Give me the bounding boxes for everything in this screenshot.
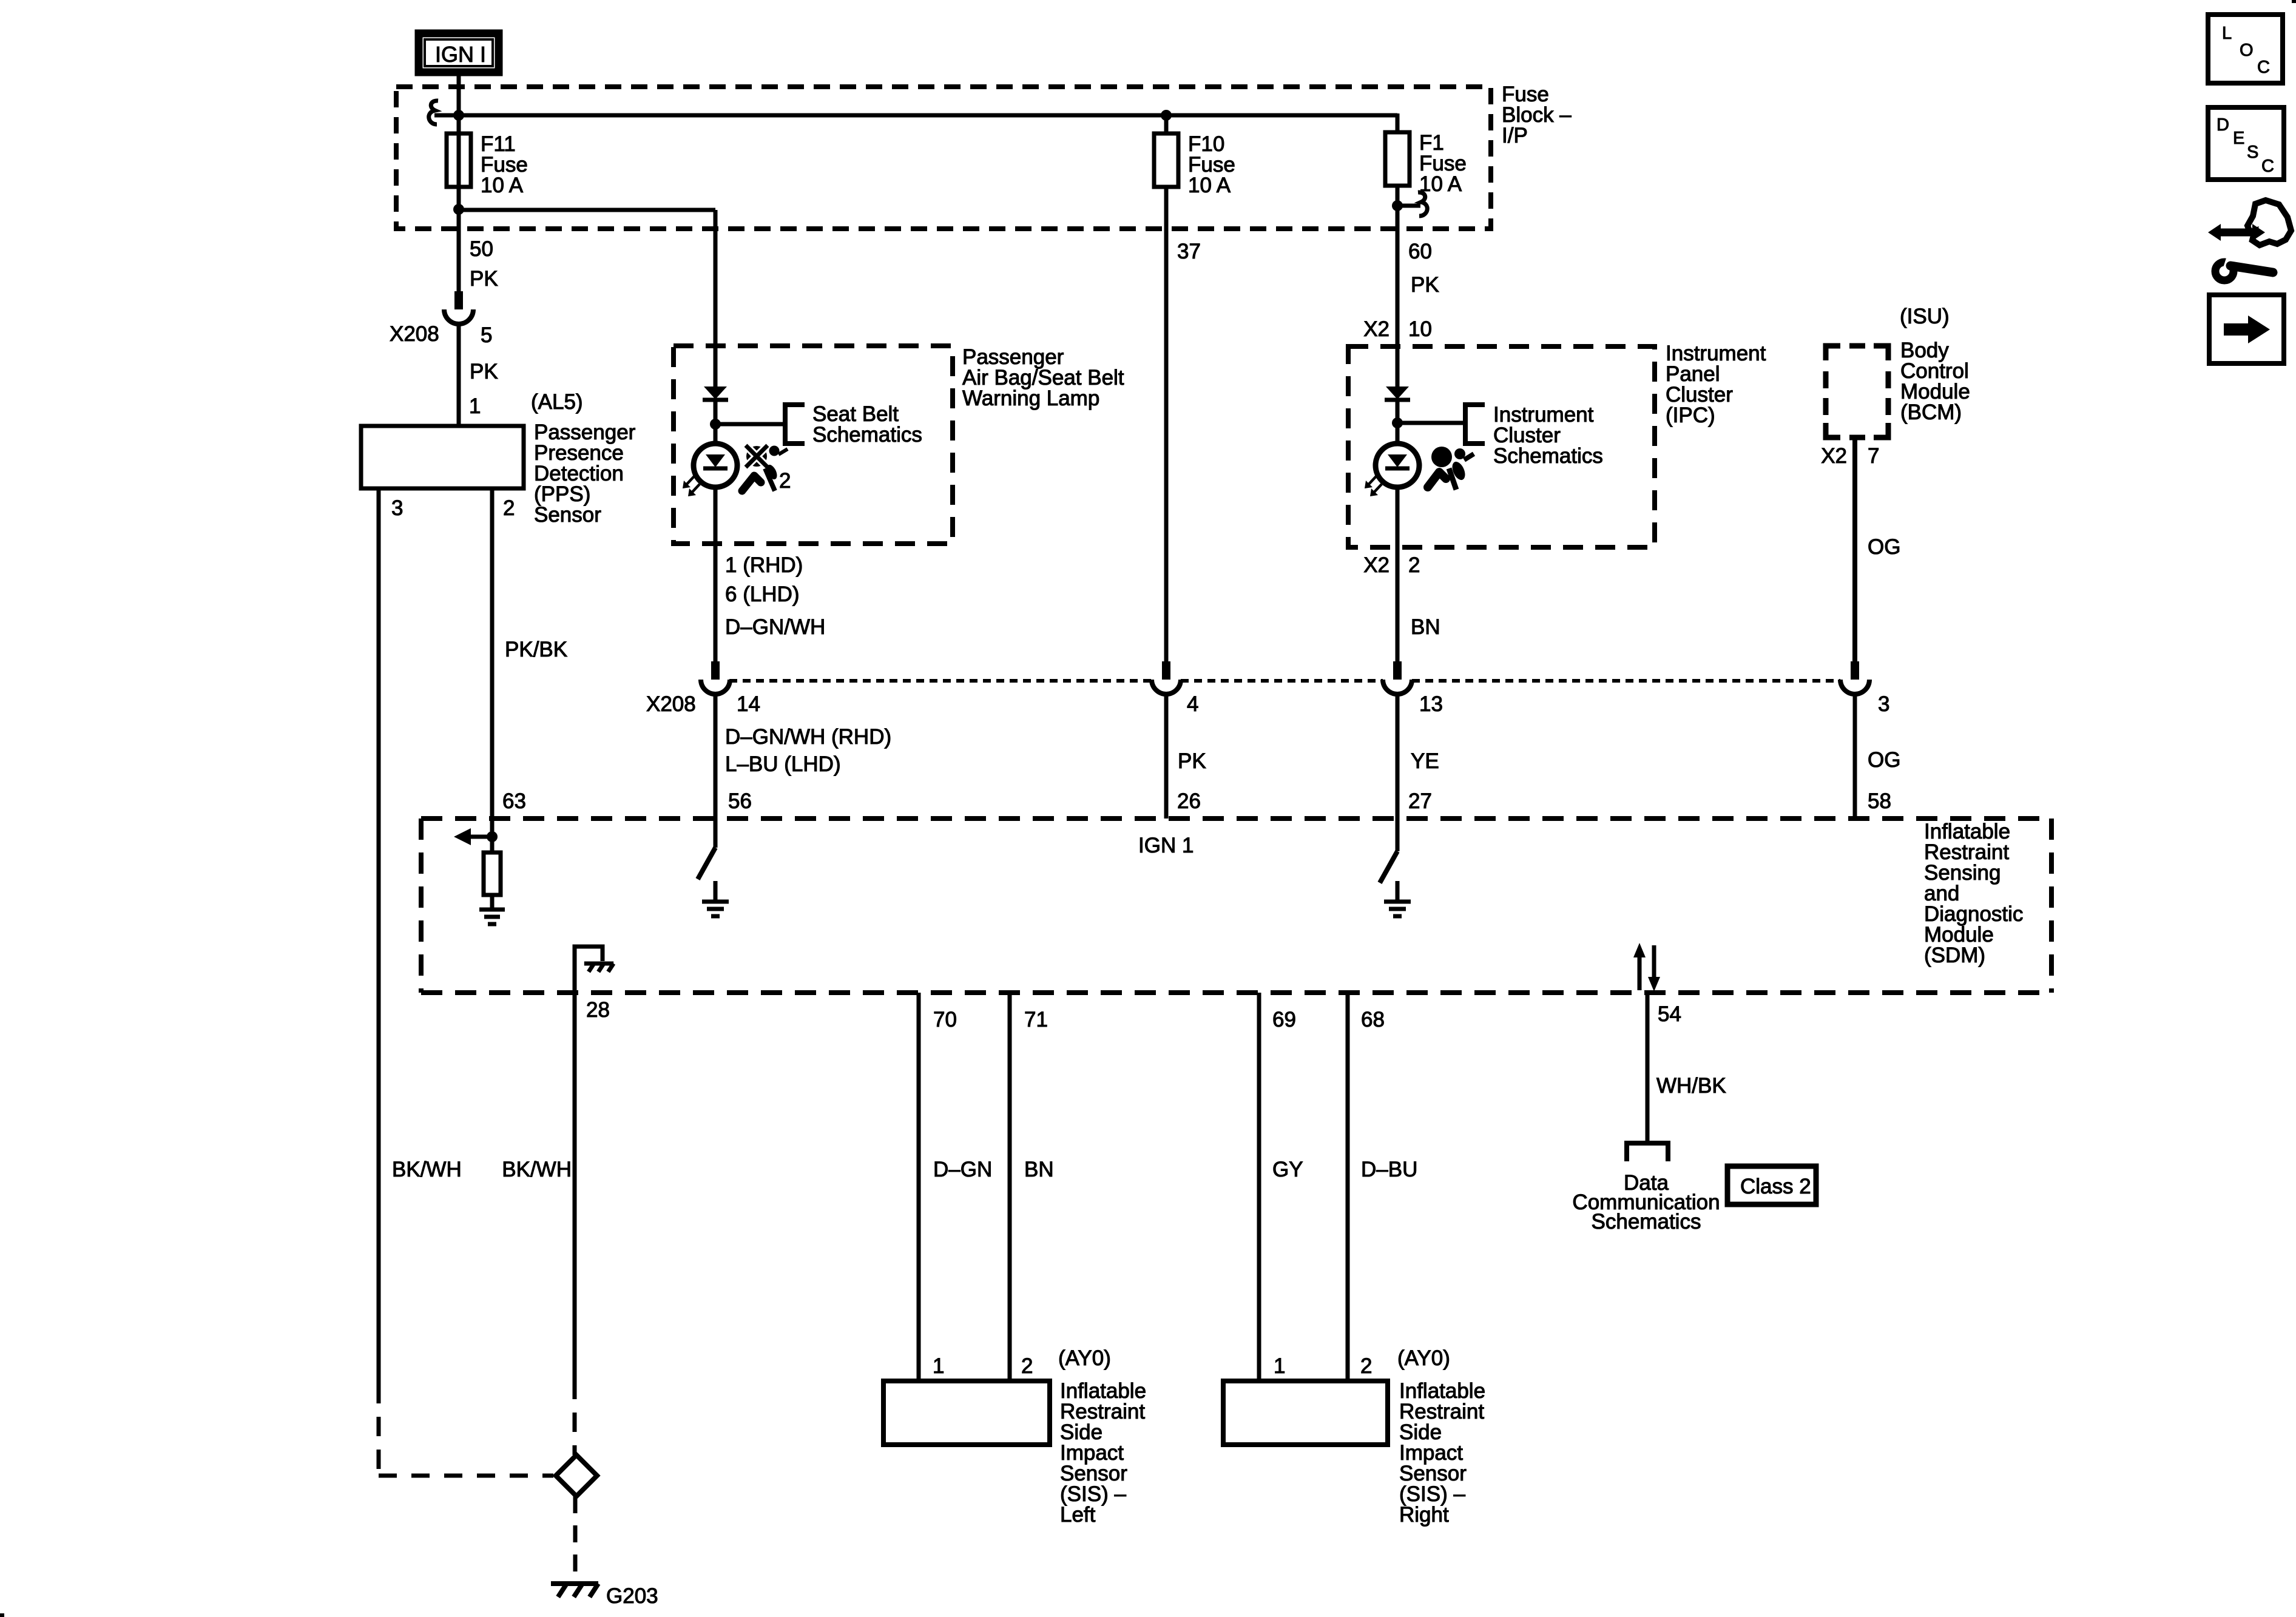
junction node F1 output bbox=[1392, 200, 1403, 211]
connector X208 pin 5 bbox=[454, 291, 463, 309]
dashed tail of pin3 wire bbox=[377, 1384, 381, 1475]
wire YE 27 bbox=[1396, 695, 1400, 819]
svg-text:C: C bbox=[2261, 157, 2274, 176]
fuse F10 bbox=[1154, 133, 1178, 187]
svg-text:WH/BK: WH/BK bbox=[1656, 1074, 1726, 1098]
svg-text:GY: GY bbox=[1272, 1158, 1303, 1181]
wire 70 D-GN bbox=[917, 993, 921, 1381]
svg-text:X2: X2 bbox=[1363, 317, 1389, 341]
splice diamond bbox=[556, 1455, 597, 1496]
dashed wire diamond to G203 bbox=[573, 1496, 578, 1582]
wire 63 into SDM bbox=[490, 819, 495, 852]
svg-text:Class 2: Class 2 bbox=[1740, 1175, 1811, 1198]
SIS right box bbox=[1223, 1381, 1388, 1445]
branch wire to seat belt lamp column bbox=[456, 208, 715, 212]
svg-text:BK/WH: BK/WH bbox=[392, 1158, 462, 1181]
svg-text:50: 50 bbox=[470, 237, 493, 261]
LED IPC bbox=[1376, 444, 1419, 487]
ground pin 27 bbox=[1396, 881, 1400, 900]
svg-text:D–GN/WH (RHD): D–GN/WH (RHD) bbox=[725, 725, 891, 749]
power feed box IGN I bbox=[419, 33, 499, 72]
svg-text:L–BU (LHD): L–BU (LHD) bbox=[725, 752, 841, 776]
wire LED to IPC box bottom bbox=[1396, 487, 1400, 547]
wire diode to junction IPC bbox=[1396, 400, 1400, 444]
svg-text:PassengerPresenceDetection(PPS: PassengerPresenceDetection(PPS)Sensor bbox=[534, 420, 636, 527]
page mark dot top right bbox=[2292, 0, 2296, 3]
svg-text:(AL5): (AL5) bbox=[531, 390, 583, 414]
svg-text:1: 1 bbox=[933, 1354, 944, 1378]
svg-text:FuseBlock –I/P: FuseBlock –I/P bbox=[1502, 83, 1572, 147]
svg-text:S: S bbox=[2247, 143, 2258, 162]
arrow into module pin 63 bbox=[471, 835, 492, 839]
svg-text:1: 1 bbox=[1274, 1354, 1285, 1378]
wire to seat belt bracket bbox=[715, 422, 785, 427]
svg-text:13: 13 bbox=[1419, 692, 1443, 716]
svg-text:D: D bbox=[2217, 115, 2229, 135]
wire BN bbox=[1396, 547, 1400, 661]
wire 69 GY bbox=[1257, 993, 1261, 1381]
svg-text:2: 2 bbox=[1021, 1354, 1033, 1378]
svg-text:PK: PK bbox=[1178, 749, 1206, 773]
svg-text:X2: X2 bbox=[1821, 444, 1847, 468]
svg-text:PK/BK: PK/BK bbox=[505, 638, 567, 661]
wire 50 PK to X208 bbox=[457, 209, 461, 291]
wire PK to PPS pin 1 bbox=[457, 325, 461, 426]
svg-text:C: C bbox=[2257, 58, 2270, 77]
svg-text:D–GN: D–GN bbox=[933, 1158, 992, 1181]
svg-text:68: 68 bbox=[1361, 1008, 1385, 1031]
svg-text:BK/WH: BK/WH bbox=[502, 1158, 572, 1181]
svg-text:69: 69 bbox=[1272, 1008, 1296, 1031]
svg-text:4: 4 bbox=[1187, 692, 1198, 716]
svg-text:(AY0): (AY0) bbox=[1397, 1346, 1450, 1370]
dashed link to splice bbox=[379, 1474, 553, 1478]
fork connector data link bbox=[1627, 1143, 1668, 1161]
class 2 box bbox=[1727, 1166, 1816, 1204]
switch pin 56 bbox=[714, 819, 718, 848]
svg-text:PK: PK bbox=[1411, 273, 1439, 297]
connector X208 pin 4 bbox=[1162, 661, 1170, 680]
svg-text:InflatableRestraintSensingandD: InflatableRestraintSensingandDiagnosticM… bbox=[1924, 820, 2023, 967]
svg-text:D–BU: D–BU bbox=[1361, 1158, 1417, 1181]
wire 54 WH/BK bbox=[1646, 993, 1650, 1143]
svg-text:2: 2 bbox=[503, 496, 515, 520]
junction node IPC bbox=[1392, 417, 1403, 428]
svg-text:E: E bbox=[2233, 129, 2244, 148]
svg-text:6 (LHD): 6 (LHD) bbox=[725, 582, 800, 606]
wire into lamp bbox=[714, 346, 718, 387]
bracket seat belt schematics bbox=[785, 405, 805, 444]
connector X208 pin 3 bbox=[1851, 661, 1859, 680]
airbag icon IPC bbox=[1431, 447, 1452, 467]
bracket instrument cluster schematics bbox=[1465, 405, 1485, 444]
svg-text:X208: X208 bbox=[390, 322, 439, 346]
svg-text:X2: X2 bbox=[1363, 553, 1389, 577]
svg-text:5: 5 bbox=[481, 323, 492, 347]
wire 71 BN bbox=[1008, 993, 1012, 1381]
svg-text:PK: PK bbox=[470, 267, 498, 291]
svg-text:28: 28 bbox=[586, 998, 610, 1022]
dashed tail wire 28 bbox=[573, 1380, 577, 1455]
resistor pin 63 bbox=[484, 852, 501, 895]
svg-text:BN: BN bbox=[1411, 615, 1440, 639]
svg-text:YE: YE bbox=[1411, 749, 1439, 773]
junction node below F11 bbox=[453, 204, 464, 215]
switch pin 27 bbox=[1396, 819, 1400, 851]
svg-text:37: 37 bbox=[1177, 240, 1201, 263]
junction node pin 63 bbox=[487, 831, 498, 842]
svg-text:7: 7 bbox=[1868, 444, 1879, 468]
svg-text:InflatableRestraintSideImpactS: InflatableRestraintSideImpactSensor(SIS)… bbox=[1399, 1379, 1485, 1527]
svg-text:Seat BeltSchematics: Seat BeltSchematics bbox=[812, 402, 922, 447]
wire 28 BK/WH bbox=[573, 993, 577, 1380]
wire corner into F1 bbox=[1396, 113, 1400, 132]
svg-text:2: 2 bbox=[1360, 1354, 1372, 1378]
svg-text:InstrumentClusterSchematics: InstrumentClusterSchematics bbox=[1493, 403, 1603, 468]
svg-text:56: 56 bbox=[728, 789, 752, 813]
ground pin 63 bbox=[479, 908, 505, 912]
svg-text:BodyControlModule(BCM): BodyControlModule(BCM) bbox=[1900, 339, 1970, 424]
wire into IPC bbox=[1396, 346, 1400, 387]
wire lamp to X208 pin 14 bbox=[714, 544, 718, 661]
svg-text:1: 1 bbox=[469, 394, 481, 418]
wire resistor to ground bbox=[490, 895, 495, 908]
svg-text:2: 2 bbox=[779, 469, 791, 493]
svg-text:OG: OG bbox=[1868, 535, 1900, 559]
fuse F11 bbox=[447, 133, 471, 187]
svg-text:L: L bbox=[2222, 24, 2232, 43]
splice hook at F1 output bbox=[1397, 204, 1420, 208]
wire to cluster bracket bbox=[1397, 421, 1465, 425]
diode IPC bbox=[1386, 387, 1409, 399]
svg-text:D–GN/WH: D–GN/WH bbox=[725, 615, 825, 639]
junction node F11 input bbox=[453, 110, 464, 121]
svg-text:PK: PK bbox=[470, 360, 498, 383]
svg-text:70: 70 bbox=[933, 1008, 957, 1031]
svg-text:O: O bbox=[2240, 41, 2254, 60]
svg-text:OG: OG bbox=[1868, 748, 1900, 772]
svg-text:BN: BN bbox=[1024, 1158, 1054, 1181]
splice hook at F11 input bbox=[434, 113, 459, 118]
inline connector row X208 dotted line bbox=[729, 679, 1152, 683]
fuse F1 bbox=[1385, 132, 1410, 186]
page mark dot bottom left bbox=[0, 1613, 4, 1617]
svg-text:3: 3 bbox=[1878, 692, 1889, 716]
chassis ground G203 bbox=[551, 1581, 598, 1586]
data link arrows pin 54 bbox=[1638, 957, 1642, 990]
fuse block I/P dashed box bbox=[396, 87, 1491, 229]
ground pin 56 bbox=[714, 881, 718, 900]
svg-text:(AY0): (AY0) bbox=[1058, 1346, 1111, 1370]
wire 60 PK bbox=[1396, 206, 1400, 346]
svg-text:(ISU): (ISU) bbox=[1900, 305, 1950, 328]
passenger air bag / seat belt warning lamp dashed box bbox=[674, 346, 953, 544]
svg-text:60: 60 bbox=[1408, 240, 1432, 263]
wire BCM X2 7 bbox=[1852, 437, 1857, 661]
svg-text:63: 63 bbox=[502, 789, 526, 813]
svg-text:1 (RHD): 1 (RHD) bbox=[725, 553, 803, 577]
connector X208 pin 14 bbox=[711, 661, 720, 680]
connector X208 pin 13 bbox=[1393, 661, 1402, 680]
svg-text:F10Fuse10 A: F10Fuse10 A bbox=[1188, 132, 1235, 197]
diagnostic hand icon bbox=[2247, 200, 2291, 245]
svg-text:F11Fuse10 A: F11Fuse10 A bbox=[481, 132, 528, 197]
svg-text:54: 54 bbox=[1658, 1002, 1681, 1026]
SIS left box bbox=[883, 1381, 1050, 1445]
svg-text:G203: G203 bbox=[606, 1584, 658, 1608]
svg-text:IGN 1: IGN 1 bbox=[1138, 834, 1194, 857]
body control module dashed box bbox=[1826, 346, 1888, 437]
arrow icon box bbox=[2209, 295, 2284, 363]
PPS sensor box bbox=[361, 426, 524, 488]
junction node lamp bbox=[710, 419, 721, 430]
svg-text:26: 26 bbox=[1177, 789, 1201, 813]
wire 56 D-GN/WH bbox=[714, 695, 718, 819]
svg-text:InstrumentPanelCluster(IPC): InstrumentPanelCluster(IPC) bbox=[1666, 342, 1766, 427]
svg-text:DataCommunicationSchematics: DataCommunicationSchematics bbox=[1572, 1171, 1720, 1234]
svg-text:14: 14 bbox=[737, 692, 760, 716]
airbag icon with crossed disc bbox=[746, 446, 767, 467]
svg-text:2: 2 bbox=[1408, 553, 1420, 577]
svg-text:F1Fuse10 A: F1Fuse10 A bbox=[1419, 131, 1467, 196]
wire PPS pin 2 PK/BK bbox=[490, 488, 495, 819]
svg-text:InflatableRestraintSideImpactS: InflatableRestraintSideImpactSensor(SIS)… bbox=[1060, 1379, 1146, 1527]
svg-text:71: 71 bbox=[1024, 1008, 1048, 1031]
internal ground hook pin 28 bbox=[575, 947, 603, 993]
chassis ground inside SDM bbox=[584, 962, 613, 966]
bus wire F11 node to F1 bbox=[456, 113, 1397, 118]
wire LED to box bottom bbox=[714, 487, 718, 544]
wire PPS pin 3 BK/WH bbox=[377, 488, 381, 1384]
svg-text:58: 58 bbox=[1868, 789, 1891, 813]
wire 68 D-BU bbox=[1346, 993, 1350, 1381]
instrument panel cluster dashed box bbox=[1348, 346, 1655, 547]
SDM dashed box bbox=[421, 816, 2051, 821]
svg-text:PassengerAir Bag/Seat BeltWarn: PassengerAir Bag/Seat BeltWarning Lamp bbox=[962, 345, 1124, 410]
LED passenger lamp bbox=[694, 444, 737, 487]
wire OG 58 bbox=[1853, 695, 1857, 819]
wire IGN I to fuse block bbox=[457, 72, 461, 135]
svg-text:X208: X208 bbox=[646, 692, 696, 716]
wire 26 PK bbox=[1164, 695, 1169, 819]
svg-text:IGN I: IGN I bbox=[435, 42, 486, 67]
LOC icon box bbox=[2208, 15, 2283, 83]
svg-text:3: 3 bbox=[391, 496, 403, 520]
svg-text:10: 10 bbox=[1408, 317, 1432, 341]
wire diode to junction bbox=[714, 400, 718, 444]
DESC icon box bbox=[2208, 107, 2284, 180]
diode passenger lamp bbox=[704, 387, 727, 399]
svg-text:27: 27 bbox=[1408, 789, 1432, 813]
junction node F10 tap bbox=[1161, 110, 1172, 121]
